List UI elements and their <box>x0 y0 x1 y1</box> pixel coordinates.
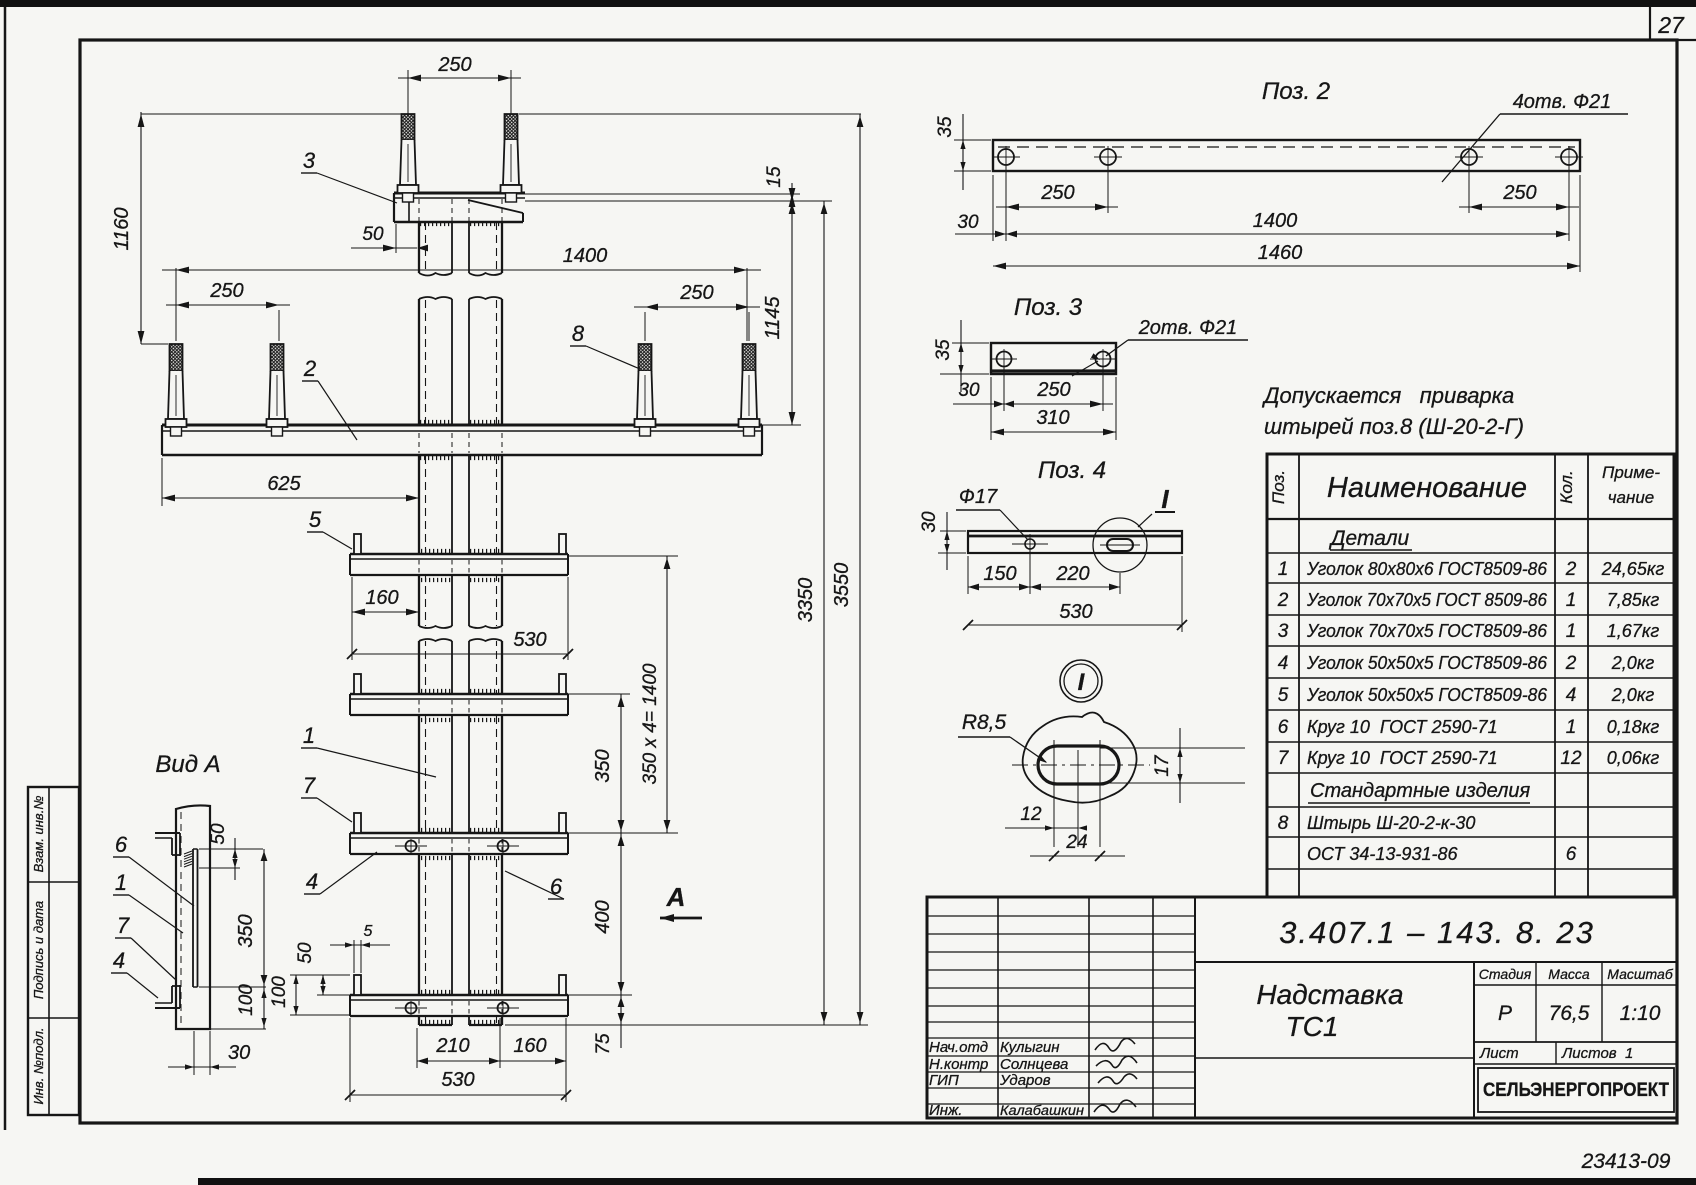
svg-text:150: 150 <box>983 563 1016 585</box>
weld marks under bracket <box>420 222 452 226</box>
svg-text:1400: 1400 <box>1253 210 1298 232</box>
hole with pin <box>406 841 417 852</box>
svg-text:3550: 3550 <box>831 563 853 608</box>
svg-text:1: 1 <box>115 870 127 895</box>
dim 1400 <box>175 268 177 341</box>
svg-text:Н.контр: Н.контр <box>929 1056 988 1073</box>
svg-text:Стадия: Стадия <box>1479 966 1532 982</box>
svg-text:2,0кг: 2,0кг <box>1611 653 1655 673</box>
svg-text:ОСТ 34-13-931-86: ОСТ 34-13-931-86 <box>1307 844 1458 864</box>
svg-text:Солнцева: Солнцева <box>1000 1056 1068 1073</box>
pin shank cx=749 <box>743 344 756 371</box>
top bracket pos.3 <box>394 193 525 222</box>
svg-text:1460: 1460 <box>1258 242 1303 264</box>
pos.3 dim 310 <box>1115 377 1117 440</box>
svg-text:4: 4 <box>1566 685 1577 706</box>
svg-text:27: 27 <box>1657 12 1685 38</box>
svg-text:2: 2 <box>1277 590 1289 611</box>
svg-text:Штырь Ш-20-2-к-30: Штырь Ш-20-2-к-30 <box>1307 813 1475 833</box>
crossbar pos.5 (B) <box>350 694 568 715</box>
svg-text:ГИП: ГИП <box>929 1072 959 1089</box>
tab stub left <box>354 813 361 833</box>
svg-text:75: 75 <box>593 1033 614 1055</box>
svg-text:50: 50 <box>362 224 384 245</box>
dim 50 bottom left <box>290 974 350 976</box>
svg-text:Уголок 70х70х5 ГОСТ 8509-86: Уголок 70х70х5 ГОСТ 8509-86 <box>1306 590 1548 610</box>
svg-text:76,5: 76,5 <box>1549 1002 1590 1025</box>
column break gap upper <box>412 273 509 299</box>
svg-text:3: 3 <box>1278 621 1289 642</box>
svg-text:35: 35 <box>935 116 956 138</box>
svg-text:2отв. Ф21: 2отв. Ф21 <box>1138 317 1238 339</box>
weld marks crossbar A <box>421 549 451 553</box>
dim 530 upper <box>567 577 569 660</box>
svg-text:7: 7 <box>117 913 130 938</box>
svg-text:Поз. 2: Поз. 2 <box>1262 78 1330 105</box>
dim 3550 <box>859 114 861 1025</box>
tab stub right <box>559 813 566 833</box>
pos.2 dim 250 left <box>1005 165 1007 241</box>
svg-text:17: 17 <box>1152 754 1173 777</box>
svg-text:350: 350 <box>592 749 614 782</box>
svg-text:R8,5: R8,5 <box>962 711 1007 734</box>
sheet bottom edge strip <box>198 1178 1696 1185</box>
hidden column lines in bracket <box>418 199 420 221</box>
view A dim 30 <box>193 1031 195 1075</box>
dim 250 top <box>407 70 409 114</box>
svg-text:310: 310 <box>1036 407 1069 429</box>
pos.2 hole d21 <box>1461 149 1477 165</box>
svg-text:30: 30 <box>228 1042 250 1064</box>
sheet left edge line <box>4 7 7 1130</box>
svg-text:Кол.: Кол. <box>1557 470 1576 503</box>
column pos.1 outer edges <box>418 222 420 1025</box>
svg-text:Стандартные изделия: Стандартные изделия <box>1310 780 1530 802</box>
tab stub right <box>559 975 566 995</box>
spec table header row line <box>1267 518 1674 520</box>
svg-text:2: 2 <box>1565 559 1577 580</box>
svg-text:24,65кг: 24,65кг <box>1601 559 1665 579</box>
crossarm pos.2 <box>162 425 762 455</box>
designation cell <box>1195 961 1677 963</box>
detail I blob outline <box>1023 713 1137 803</box>
pos.4 detail circle I <box>1093 518 1147 572</box>
svg-text:3.407.1 – 143. 8. 23: 3.407.1 – 143. 8. 23 <box>1279 915 1595 950</box>
svg-text:30: 30 <box>919 511 940 533</box>
svg-text:5: 5 <box>1278 685 1289 706</box>
svg-text:1400: 1400 <box>563 245 608 267</box>
dim 3350 <box>823 201 825 1025</box>
view A bracket pos.4 bottom <box>155 1007 180 1009</box>
detail I dim 12 <box>1005 827 1078 829</box>
column pos.1 hidden dashed lines <box>425 222 427 1025</box>
pos.4 bar <box>968 531 1182 553</box>
pos.3 dim 35 <box>952 342 989 344</box>
pos.2 dim 250 right <box>1468 165 1470 213</box>
list listov row <box>1474 1063 1677 1065</box>
tab stub left <box>354 975 361 995</box>
dim 75 right <box>505 1024 868 1026</box>
pos.3 bar <box>991 343 1116 374</box>
pos.2 hole d21 <box>1561 149 1577 165</box>
tab stub right <box>559 534 566 554</box>
svg-text:250: 250 <box>437 54 471 76</box>
hidden column lines in crossarm <box>418 433 420 453</box>
svg-text:12: 12 <box>1560 748 1582 769</box>
svg-text:Уголок 80х80х6 ГОСТ8509-86: Уголок 80х80х6 ГОСТ8509-86 <box>1306 559 1548 579</box>
pos.3 dim 30 250 <box>990 377 992 440</box>
svg-text:Масса: Масса <box>1548 966 1590 982</box>
pos.4 oval hole <box>1107 539 1133 551</box>
svg-text:1: 1 <box>1278 559 1289 580</box>
selenergoproekt box <box>1478 1068 1674 1112</box>
svg-text:250: 250 <box>1036 379 1070 401</box>
svg-text:Нач.отд: Нач.отд <box>929 1039 988 1056</box>
svg-text:7: 7 <box>303 773 316 798</box>
view A rod weld hatch <box>184 851 192 854</box>
svg-text:530: 530 <box>1059 601 1092 623</box>
svg-text:Уголок 50х50х5 ГОСТ8509-86: Уголок 50х50х5 ГОСТ8509-86 <box>1306 685 1548 705</box>
svg-text:6: 6 <box>1566 844 1577 865</box>
svg-text:штырей поз.8 (Ш-20-2-Г): штырей поз.8 (Ш-20-2-Г) <box>1264 414 1524 439</box>
svg-text:Детали: Детали <box>1329 527 1410 550</box>
pin shank cx=277 <box>271 344 284 371</box>
tab stub left <box>354 674 361 694</box>
view A bracket pos.7 top <box>155 832 180 834</box>
svg-text:Поз.: Поз. <box>1269 470 1288 504</box>
svg-text:2: 2 <box>1565 653 1577 674</box>
svg-text:Р: Р <box>1498 1002 1512 1025</box>
svg-text:Листов 1: Листов 1 <box>1561 1045 1633 1062</box>
svg-text:400: 400 <box>592 900 614 933</box>
svg-text:Вид А: Вид А <box>155 751 220 778</box>
svg-text:0,18кг: 0,18кг <box>1607 717 1660 737</box>
pos.2 dim 1460 <box>1579 175 1581 272</box>
svg-text:Круг 10 ГОСТ 2590-71: Круг 10 ГОСТ 2590-71 <box>1307 717 1498 737</box>
pos.4 hole f17 <box>1025 539 1035 549</box>
dim 625 <box>161 458 163 506</box>
svg-text:Поз. 4: Поз. 4 <box>1038 457 1106 484</box>
svg-text:Поз. 3: Поз. 3 <box>1014 294 1083 321</box>
svg-text:24: 24 <box>1065 832 1087 853</box>
weld marks crossbar D <box>421 990 451 994</box>
dim 400 right (C to D) <box>566 994 632 996</box>
weld marks at crossarm <box>420 420 452 424</box>
view A rod pos.6 <box>192 849 194 987</box>
svg-text:1: 1 <box>1566 590 1577 611</box>
svg-text:1: 1 <box>1566 621 1577 642</box>
sheet top edge strip <box>0 0 1696 7</box>
detail I oval slot <box>1038 746 1119 784</box>
svg-text:8: 8 <box>1278 813 1289 834</box>
detail I dim 24 <box>1030 855 1125 857</box>
title block outer <box>927 897 1677 1118</box>
dim 530 bottom <box>349 1018 351 1102</box>
svg-text:30: 30 <box>957 212 979 233</box>
svg-text:Наименование: Наименование <box>1327 472 1527 504</box>
svg-text:210: 210 <box>435 1035 469 1057</box>
svg-text:100: 100 <box>236 984 257 1016</box>
svg-text:Ударов: Ударов <box>999 1072 1051 1089</box>
pos.2 hole d21 <box>1100 149 1116 165</box>
pos.3 hole d21 <box>1096 352 1111 367</box>
svg-text:Уголок 70х70х5 ГОСТ8509-86: Уголок 70х70х5 ГОСТ8509-86 <box>1306 621 1548 641</box>
svg-text:Инв. №подл.: Инв. №подл. <box>31 1027 46 1104</box>
svg-text:1:10: 1:10 <box>1620 1002 1661 1025</box>
svg-text:1145: 1145 <box>762 296 784 340</box>
pos.4 dim 30 <box>940 530 966 532</box>
svg-text:4: 4 <box>1278 653 1289 674</box>
pin shank cx=176 <box>170 344 183 371</box>
svg-text:3: 3 <box>303 148 316 173</box>
dim 250 right pair <box>644 312 646 341</box>
svg-text:350 x 4= 1400: 350 x 4= 1400 <box>640 663 661 784</box>
dim 50 at bracket <box>395 224 397 253</box>
svg-text:Инж.: Инж. <box>929 1102 962 1119</box>
svg-text:250: 250 <box>1040 182 1074 204</box>
svg-text:Допускается приварка: Допускается приварка <box>1261 383 1514 408</box>
signatures <box>1095 1038 1135 1050</box>
hole with pin <box>498 1003 509 1014</box>
svg-text:4: 4 <box>113 948 125 973</box>
svg-text:Уголок 50х50х5 ГОСТ8509-86: Уголок 50х50х5 ГОСТ8509-86 <box>1306 653 1548 673</box>
tab stub right <box>559 674 566 694</box>
dim 160 upper <box>351 577 353 660</box>
svg-text:Лист: Лист <box>1479 1045 1519 1062</box>
hole with pin <box>406 1003 417 1014</box>
svg-text:625: 625 <box>267 473 301 495</box>
svg-text:30: 30 <box>958 380 980 401</box>
dim 350 right (B to C) <box>568 693 630 695</box>
view A dim 350 <box>199 986 266 988</box>
pin shank cx=408 <box>402 114 415 140</box>
svg-text:Ф17: Ф17 <box>959 486 998 508</box>
svg-text:4отв. Ф21: 4отв. Ф21 <box>1513 91 1612 113</box>
svg-text:250: 250 <box>679 282 713 304</box>
svg-text:Кулыгин: Кулыгин <box>1000 1039 1060 1056</box>
svg-text:7: 7 <box>1278 748 1290 769</box>
detail I dim 17 <box>1100 747 1245 749</box>
svg-text:15: 15 <box>764 166 785 188</box>
svg-text:0,06кг: 0,06кг <box>1607 748 1660 768</box>
svg-text:5: 5 <box>364 923 373 940</box>
svg-text:530: 530 <box>441 1069 474 1091</box>
pos.2 dim 1400 and 30 <box>992 175 994 241</box>
svg-text:250: 250 <box>209 280 243 302</box>
svg-text:I: I <box>1161 484 1169 514</box>
svg-text:50: 50 <box>208 823 229 845</box>
svg-text:23413-09: 23413-09 <box>1581 1150 1671 1173</box>
detail I center lines <box>1012 764 1150 766</box>
dim 1145 right <box>791 201 793 425</box>
view A column pos.1 <box>176 805 210 1029</box>
name cell nadstavka <box>1473 962 1475 1118</box>
svg-text:Надставка: Надставка <box>1256 979 1403 1010</box>
dim 350x4=1400 <box>568 555 678 557</box>
sidebar stamp boxes <box>28 787 79 1115</box>
extension line top level y114 <box>141 113 402 115</box>
svg-text:Приме-: Приме- <box>1602 463 1660 482</box>
svg-text:100: 100 <box>269 976 290 1008</box>
svg-text:ТС1: ТС1 <box>1286 1011 1339 1042</box>
crossbar pos.4 with holes (D) <box>350 995 568 1016</box>
spec table frame <box>1267 454 1674 897</box>
svg-text:1160: 1160 <box>111 207 133 250</box>
crossbar pos.5 upper (A) <box>350 554 568 575</box>
svg-text:12: 12 <box>1020 804 1042 825</box>
svg-text:чание: чание <box>1608 488 1655 507</box>
dim 250 left pair <box>278 310 280 341</box>
weld marks crossbar C <box>421 828 451 832</box>
svg-text:СЕЛЬЭНЕРГОПРОЕКТ: СЕЛЬЭНЕРГОПРОЕКТ <box>1483 1080 1669 1101</box>
svg-text:530: 530 <box>513 629 546 651</box>
svg-text:7,85кг: 7,85кг <box>1607 590 1660 610</box>
pos.4 dim 530 <box>1181 556 1183 632</box>
svg-text:5: 5 <box>309 507 322 532</box>
svg-text:6: 6 <box>115 832 128 857</box>
dim 5 tab thickness <box>353 940 355 973</box>
column pos.1 inner edges <box>451 222 453 1025</box>
dim 210 bottom <box>416 1028 418 1068</box>
svg-text:250: 250 <box>1502 182 1536 204</box>
pin shank cx=511 <box>505 114 518 140</box>
crossbar pos.4 with holes (C) <box>350 833 568 854</box>
dim 1160 <box>140 112 142 344</box>
svg-text:Масштаб: Масштаб <box>1607 966 1674 982</box>
pin shank cx=645 <box>639 344 652 371</box>
svg-text:Калабашкин: Калабашкин <box>1000 1102 1084 1118</box>
svg-text:1,67кг: 1,67кг <box>1607 621 1660 641</box>
view A dim 50 <box>199 848 263 850</box>
svg-text:35: 35 <box>933 339 954 361</box>
svg-text:3350: 3350 <box>795 578 817 623</box>
svg-text:1: 1 <box>1566 717 1577 738</box>
svg-text:160: 160 <box>513 1035 546 1057</box>
dim 160 bottom <box>565 1018 567 1102</box>
svg-text:350: 350 <box>235 914 257 947</box>
svg-text:50: 50 <box>295 942 316 964</box>
svg-text:4: 4 <box>306 869 318 894</box>
svg-text:160: 160 <box>365 587 398 609</box>
svg-text:Круг 10 ГОСТ 2590-71: Круг 10 ГОСТ 2590-71 <box>1307 748 1498 768</box>
svg-text:2,0кг: 2,0кг <box>1611 685 1655 705</box>
dim 100 bottom left <box>290 1014 350 1016</box>
pos.2 dim 35 <box>954 139 991 141</box>
page number box <box>1649 7 1651 40</box>
dim 15 right top <box>525 193 800 195</box>
svg-text:220: 220 <box>1055 563 1089 585</box>
tab stub left <box>354 534 361 554</box>
svg-text:2: 2 <box>303 356 316 381</box>
pos.2 bar <box>993 140 1580 171</box>
detail I marker circle <box>1060 660 1102 702</box>
svg-text:6: 6 <box>1278 717 1289 738</box>
svg-text:1: 1 <box>303 723 315 748</box>
svg-text:Подпись и дата: Подпись и дата <box>31 901 46 999</box>
svg-text:8: 8 <box>572 321 585 346</box>
pos.4 dim 150 220 <box>967 556 969 594</box>
column bottom end weld <box>421 1020 451 1024</box>
pos.3 hole d21 <box>997 352 1012 367</box>
view A dim 100 <box>210 1028 266 1030</box>
title block left grid rows <box>927 915 1195 917</box>
column break gap lower <box>412 626 509 641</box>
weld marks crossbar B <box>421 689 451 693</box>
title block left grid columns <box>997 897 999 1118</box>
pos.2 hole d21 <box>998 149 1014 165</box>
svg-text:А: А <box>666 882 686 912</box>
stadia massa masshtab values <box>1474 1041 1677 1043</box>
svg-text:Взам. инв.№: Взам. инв.№ <box>31 796 46 873</box>
hole with pin <box>498 841 509 852</box>
stadia massa masshtab header <box>1474 984 1677 986</box>
